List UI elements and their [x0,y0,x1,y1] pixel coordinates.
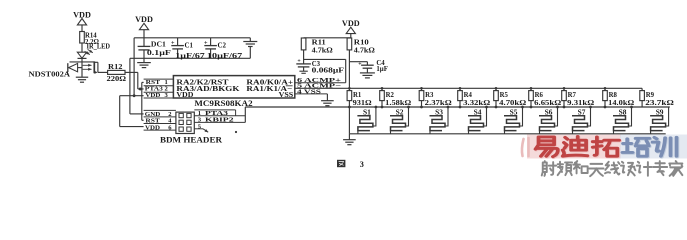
svg-text:+: + [358,61,361,67]
svg-text:R7: R7 [568,92,577,99]
svg-text:VSS: VSS [279,91,294,99]
photo package top wire [70,61,95,63]
switch S1 [357,106,377,134]
svg-text:4 VSS: 4 VSS [297,88,321,95]
label NDST002A [29,70,71,79]
resistor R11 [301,38,333,55]
svg-text:1µF: 1µF [376,66,387,73]
resistor R3 [419,88,452,107]
op-amp/MCU U1 MC9RS08KA2 box [173,76,294,98]
phototransistor base bar [93,61,95,73]
svg-text:10µF/67: 10µF/67 [207,52,243,60]
svg-text:1µF/67: 1µF/67 [175,52,205,60]
stray mark [235,131,237,133]
bus ACMP- net [295,87,642,89]
svg-text:R2: R2 [386,92,395,99]
watermark text Di [563,136,588,156]
wire R10 to bus [348,50,350,88]
svg-text:R5: R5 [500,92,509,99]
power VDD3 [342,19,360,34]
ground at rail right end [243,38,257,59]
svg-text:R6: R6 [535,92,544,99]
svg-text:R4: R4 [464,92,473,99]
svg-text:4.7kΩ: 4.7kΩ [354,48,376,55]
watermark text Pei [622,138,650,157]
svg-text:NDST002A: NDST002A [29,70,71,79]
phototransistor collector/emitter [94,62,98,74]
MCU inside pin names [176,79,293,100]
svg-text:0.1µF: 0.1µF [147,49,171,57]
svg-text:VDD: VDD [145,92,160,99]
wire MCU pin3 stub [120,95,144,97]
svg-text:KBIP2: KBIP2 [205,117,235,124]
lower ground bus [349,133,665,135]
resistor R4 [458,88,491,107]
svg-text:931Ω: 931Ω [353,100,373,107]
svg-text:R11: R11 [312,40,327,47]
caption figure 3 [337,160,364,169]
svg-text:23.7kΩ: 23.7kΩ [645,100,674,107]
wire LED cathode down [81,58,83,77]
BDM left pin flags [144,110,176,131]
wire emitter to R12 [98,71,108,73]
switch S3 [430,106,450,134]
wire VDD to BDM VDD6 [120,96,144,127]
resistor R14 [80,32,100,47]
watermark tagline RF and antenna design experts [542,161,683,176]
MCU right pin 6 wire ACMP+ [295,82,346,84]
resistor R9 [640,88,675,107]
ground VSS [321,94,334,106]
svg-text:220Ω: 220Ω [107,76,127,83]
ground under C4 [360,73,375,78]
node R7 junctions [563,87,566,108]
wire BDM to ladder [245,107,670,122]
svg-text:R12: R12 [108,64,123,71]
node R4 junctions [459,87,462,108]
wire R12 to PTA3 pin [125,72,144,90]
wire R14 to LED [81,43,83,52]
capacitor C4 [349,60,387,73]
node R5 junctions [495,87,498,108]
power VDD1 [73,10,91,25]
wire MCU RST to BDM RST4 [142,82,144,120]
svg-text:0.068µF: 0.068µF [312,67,344,74]
svg-text:4.7kΩ: 4.7kΩ [312,48,334,55]
watermark partial logo mark [522,138,529,156]
switch S6 [539,106,559,134]
label IR_LED [87,44,111,51]
coupling arrows to phototransistor base [83,64,92,71]
connector BDM header block [176,112,194,133]
wire GND rail to BDM GND2 [130,58,144,114]
resistor R1 [347,88,372,107]
resistor R7 [562,88,595,107]
switch S8 [613,106,633,134]
watermark text Yi [536,137,559,157]
capacitor C2 [204,38,243,60]
svg-text:R8: R8 [609,92,618,99]
wire ACMP+ loop [304,59,346,82]
switch S2 [390,106,410,134]
svg-text:VDD: VDD [145,124,160,131]
node R8 junctions [604,87,607,108]
switch S4 [468,106,488,134]
svg-text:VDD: VDD [176,91,193,99]
svg-text:C1: C1 [185,41,194,49]
wire VDD2 to rail [143,30,145,38]
resistor R6 [529,88,562,107]
label MC9RS08KA2 [194,99,252,108]
MCU left pin flags [144,79,174,99]
switch S9 [650,107,669,134]
node R1 junctions [348,87,351,108]
capacitor DC1 [138,38,171,59]
node R6 junctions [530,87,533,108]
MCU right pin 4 wire VSS [295,93,328,95]
switch S5 [504,106,524,134]
MCU right pin labels [297,77,341,95]
ground G4 ladder [343,134,356,145]
svg-text:R3: R3 [425,92,434,99]
svg-text:R1: R1 [353,92,362,99]
watermark text Xun [653,137,678,156]
photodiode NDST002A [68,63,82,72]
wire R1 bottom to ground bus [348,107,350,134]
label BDM HEADER [160,135,223,144]
ground under photo package [76,77,88,82]
svg-text:DC1: DC1 [151,40,167,48]
svg-text:R9: R9 [646,92,655,99]
resistor R10 [347,38,375,55]
resistor R2 [380,88,412,107]
watermark background halo [527,135,687,159]
svg-text:IR_LED: IR_LED [87,44,111,51]
LED IR_LED [77,49,93,58]
resistor R12 [107,64,127,83]
wire VDD1 to R14 [81,25,83,32]
resistor R5 [494,88,527,107]
svg-text:MC9RS08KA2: MC9RS08KA2 [194,99,252,108]
resistor R8 [603,88,635,107]
power VDD2 [135,15,153,30]
svg-text:3: 3 [360,160,364,169]
svg-text:C2: C2 [218,41,227,49]
switch S7 [572,106,592,134]
wire VDD rail to MCU pin3 [133,38,136,97]
svg-text:R10: R10 [354,40,370,47]
watermark text Tuo [593,137,620,157]
svg-text:BDM HEADER: BDM HEADER [160,135,223,144]
node R2 junctions [381,87,384,108]
ground under DC1 [137,58,151,67]
cap bottom rail [130,57,250,59]
capacitor C1 [171,38,205,60]
wire VDD3 down [304,34,351,38]
BDM right pin flags [194,110,245,132]
capacitor C3 [296,50,344,74]
VDD rail [134,37,250,39]
node R3 junctions [420,87,423,108]
